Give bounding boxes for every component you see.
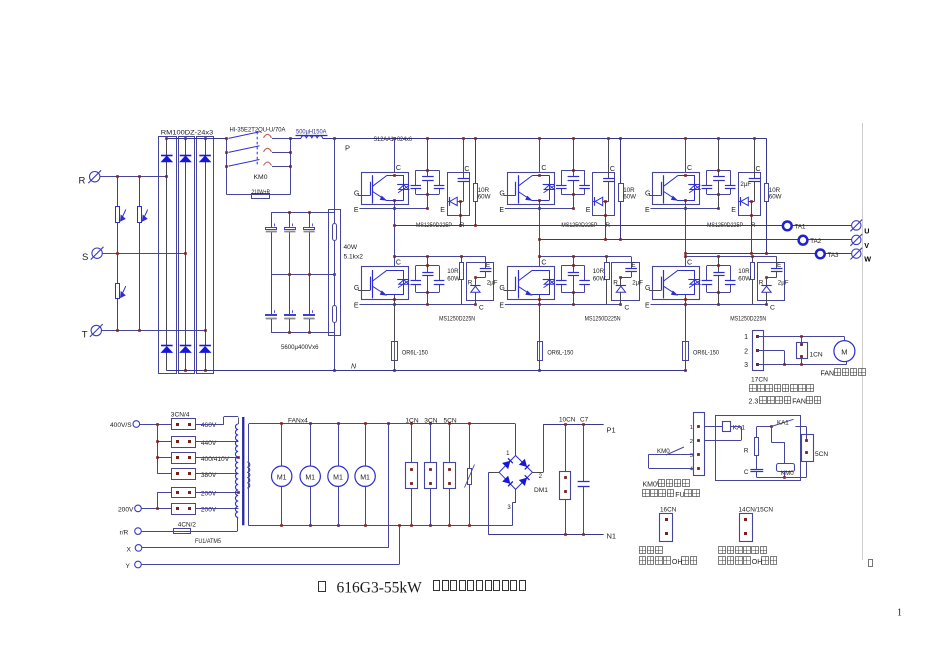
thermistor RT1 bbox=[465, 424, 475, 526]
svg-text:400V/S: 400V/S bbox=[110, 422, 132, 429]
wire emitter E line top leg@686 bbox=[651, 207, 720, 210]
resistor 10R 60W bottom leg@686 bbox=[738, 257, 754, 305]
svg-text:OH: OH bbox=[752, 559, 763, 566]
svg-text:C: C bbox=[744, 469, 749, 476]
rectifier module D2 bbox=[179, 137, 195, 374]
stray tofu box bbox=[869, 560, 873, 567]
resistor R snubber KM0 bbox=[744, 425, 773, 455]
svg-text:P1: P1 bbox=[607, 426, 616, 435]
fuse OR6L-150 leg@540 bbox=[538, 342, 574, 372]
terminal r/R bbox=[120, 528, 142, 537]
label open trips FU fault text bbox=[643, 490, 700, 499]
svg-text:E: E bbox=[440, 207, 445, 214]
svg-text:10R: 10R bbox=[593, 268, 605, 275]
svg-text:380V: 380V bbox=[201, 472, 217, 479]
resistor 10R 60W bottom leg@540 bbox=[593, 257, 610, 305]
svg-text:14CN/15CN: 14CN/15CN bbox=[739, 507, 774, 514]
wire leg mid vertical leg@394 bbox=[394, 225, 396, 267]
svg-text:3CN: 3CN bbox=[424, 417, 437, 424]
svg-text:M: M bbox=[841, 347, 847, 356]
svg-text:60W: 60W bbox=[769, 193, 782, 200]
capacitor snubber bank top leg@394 bbox=[411, 138, 445, 208]
svg-text:E: E bbox=[499, 303, 504, 310]
terminal T bbox=[82, 324, 103, 340]
svg-text:C: C bbox=[479, 305, 484, 312]
varistor RV2 (R-T) bbox=[138, 177, 148, 331]
wire emitter top leg@540 bbox=[538, 199, 541, 241]
svg-text:FANx4: FANx4 bbox=[288, 417, 308, 424]
capacitor snubber bank bottom leg@686 bbox=[702, 257, 736, 305]
resistor 210W+R (bypass) bbox=[252, 189, 271, 198]
svg-text:4CN/2: 4CN/2 bbox=[178, 521, 197, 528]
svg-text:V: V bbox=[864, 241, 869, 250]
wire 400V/S feed bbox=[140, 423, 172, 474]
wire N1 rail bbox=[489, 533, 604, 536]
svg-text:G: G bbox=[645, 190, 650, 197]
svg-text:C: C bbox=[464, 166, 469, 173]
motor M cooling fan bbox=[834, 341, 855, 362]
bleeder box outline bbox=[329, 210, 341, 336]
current sensor TA2 bbox=[799, 236, 822, 245]
connector 1CN (fan supply) bbox=[405, 417, 418, 525]
svg-text:DM1: DM1 bbox=[534, 487, 548, 494]
motor M1 fan @365 bbox=[355, 424, 375, 526]
svg-text:KA1: KA1 bbox=[733, 424, 746, 431]
label open trips OH fault text (left) bbox=[639, 557, 697, 567]
capacitor C3 (5600u top) bbox=[304, 212, 315, 274]
node P bbox=[345, 144, 350, 153]
wire tap 400/410V bbox=[196, 457, 239, 459]
capacitor C1b (5600u bottom) bbox=[266, 274, 277, 332]
label 5600u400Vx6 bbox=[281, 344, 319, 351]
svg-text:2µF: 2µF bbox=[632, 279, 643, 286]
wire collector feed bottom leg@394 bbox=[393, 255, 485, 258]
svg-text:M1: M1 bbox=[277, 474, 287, 481]
label open trips OH fault text (right) bbox=[719, 557, 777, 567]
svg-text:2: 2 bbox=[690, 439, 693, 445]
wire cap bank middle bus bbox=[271, 273, 336, 276]
svg-text:TA3: TA3 bbox=[828, 252, 839, 259]
svg-text:R: R bbox=[613, 279, 618, 286]
wire collector top leg@540 bbox=[538, 138, 541, 176]
wire 17CN pin3 to fan bbox=[757, 362, 846, 366]
resistor 10R 60W top leg@540 bbox=[619, 138, 637, 240]
wire S phase bbox=[102, 252, 186, 255]
resistor R bleed bottom 5.1k bbox=[333, 306, 337, 333]
svg-text:60W: 60W bbox=[623, 193, 636, 200]
connector tap box 3 (400/410V) bbox=[172, 453, 230, 464]
svg-text:r/R: r/R bbox=[120, 529, 129, 536]
terminal 400V/S bbox=[110, 421, 140, 429]
terminal U bbox=[850, 220, 869, 236]
wire emitter E line top leg@394 bbox=[359, 207, 428, 210]
page border line bbox=[862, 123, 864, 560]
wire cap bank bottom bus bbox=[271, 331, 334, 334]
svg-text:S: S bbox=[82, 252, 88, 263]
label HI-35E2T2QU-U/70A bbox=[230, 127, 287, 134]
svg-text:N1: N1 bbox=[607, 532, 617, 541]
node P1 bbox=[607, 426, 616, 435]
svg-text:60W: 60W bbox=[478, 193, 491, 200]
connector tap box 4 (380V) bbox=[172, 469, 217, 480]
svg-text:C: C bbox=[770, 305, 775, 312]
svg-text:2µF: 2µF bbox=[740, 181, 751, 188]
IGBT module bottom (MS1250D225N) leg@686 bbox=[645, 260, 700, 310]
connector 5CN (fan supply) bbox=[444, 417, 457, 525]
resistor 10R 60W top leg@686 bbox=[765, 138, 782, 254]
terminal W bbox=[850, 248, 871, 264]
svg-text:X: X bbox=[127, 546, 132, 553]
snubber diode network bottom leg@686 bbox=[758, 257, 789, 312]
connector tap box 5 (200V) bbox=[172, 488, 217, 498]
label MS1250D225P leg@394 bbox=[416, 222, 465, 229]
current sensor TA1 bbox=[783, 222, 806, 231]
wire 17CN pin1 to fan bbox=[757, 335, 844, 340]
label 2uF leg3 top bbox=[740, 181, 751, 188]
contact KM0 aux bbox=[649, 447, 694, 469]
snubber diode network top leg@540 bbox=[586, 138, 615, 240]
svg-text:R: R bbox=[468, 279, 473, 286]
snubber diode network top leg@394 bbox=[440, 138, 469, 226]
label FANx4 bbox=[288, 417, 308, 424]
varistor RV3 (S-T) bbox=[116, 253, 126, 330]
svg-text:17CN: 17CN bbox=[751, 376, 768, 383]
svg-text:G: G bbox=[499, 190, 504, 197]
wire leg mid vertical leg@686 bbox=[685, 254, 687, 267]
wire emitter top leg@686 bbox=[684, 199, 687, 255]
svg-text:210W+R: 210W+R bbox=[252, 189, 271, 196]
svg-text:2µF: 2µF bbox=[487, 279, 498, 286]
svg-text:C: C bbox=[624, 305, 629, 312]
svg-text:200V: 200V bbox=[201, 490, 217, 497]
label fan fault detect terminal text bbox=[750, 385, 814, 392]
svg-text:440V: 440V bbox=[201, 440, 217, 447]
svg-text:40W: 40W bbox=[344, 244, 358, 251]
title text 616G3-55kW bbox=[337, 579, 423, 596]
svg-text:E: E bbox=[631, 262, 635, 269]
rectifier module D1 bbox=[159, 137, 177, 374]
motor M1 fan @282 bbox=[272, 424, 292, 526]
wire cap bank to N bus bbox=[333, 333, 336, 372]
terminal 200V bbox=[118, 505, 141, 513]
svg-text:OR6L-150: OR6L-150 bbox=[693, 350, 719, 357]
svg-text:P: P bbox=[345, 144, 350, 153]
svg-text:MS1250D225N: MS1250D225N bbox=[585, 315, 621, 322]
wire V output bbox=[540, 239, 852, 241]
contact KA1 bbox=[771, 419, 806, 440]
svg-text:M1: M1 bbox=[333, 474, 343, 481]
connector tap box 6 (200V) bbox=[172, 504, 217, 515]
wire tap 200V bbox=[196, 492, 239, 494]
svg-text:200V: 200V bbox=[201, 507, 217, 514]
svg-text:E: E bbox=[586, 207, 591, 214]
wire tap 380V bbox=[196, 473, 239, 475]
svg-text:G: G bbox=[499, 285, 504, 292]
varistor RV1 (R-S) bbox=[116, 177, 126, 254]
svg-text:400/410V: 400/410V bbox=[201, 456, 230, 463]
svg-text:1CN: 1CN bbox=[405, 417, 418, 424]
wire collector top leg@394 bbox=[393, 138, 396, 176]
svg-text:KM0: KM0 bbox=[781, 470, 794, 477]
terminal V bbox=[850, 234, 869, 250]
terminal R bbox=[79, 170, 102, 186]
svg-text:KM0\: KM0\ bbox=[643, 482, 659, 489]
wire bridge AC bottom bbox=[512, 489, 515, 525]
svg-text:MS1250D225N: MS1250D225N bbox=[439, 315, 475, 322]
label 3CN/4 bbox=[171, 411, 190, 418]
wire Y line bbox=[141, 526, 399, 565]
wire tap 460V bbox=[196, 417, 238, 425]
svg-text:Y: Y bbox=[126, 563, 131, 570]
connector 5CN bbox=[802, 435, 829, 462]
wire leg mid vertical leg@540 bbox=[539, 240, 541, 267]
label RM100DZ-24x3 bbox=[161, 129, 214, 136]
page number bbox=[897, 608, 902, 619]
svg-text:E: E bbox=[354, 303, 359, 310]
label shorted text bbox=[639, 547, 662, 554]
svg-text:R: R bbox=[744, 448, 749, 455]
wire W output bbox=[686, 253, 853, 255]
svg-text:2.3: 2.3 bbox=[749, 399, 759, 406]
snubber diode network top leg@686 bbox=[731, 138, 760, 254]
svg-text:M1: M1 bbox=[305, 474, 315, 481]
wire P bus from rectifier to contactor bbox=[167, 138, 227, 140]
capacitor C1 (5600u top) bbox=[266, 212, 277, 274]
svg-text:W: W bbox=[864, 255, 871, 264]
label external thermal sensor text bbox=[719, 547, 767, 554]
svg-text:500µH150A: 500µH150A bbox=[296, 128, 327, 135]
wire fan box top bus bbox=[249, 422, 516, 526]
motor M1 fan @310 bbox=[300, 424, 320, 526]
svg-text:10R: 10R bbox=[738, 268, 750, 275]
wire KM0 block bottom rail bbox=[757, 462, 807, 478]
resistor R bleed top 5.1k bbox=[333, 138, 337, 305]
svg-text:U: U bbox=[864, 226, 869, 235]
svg-text:2µF: 2µF bbox=[778, 279, 789, 286]
resistor 10R 60W bottom leg@394 bbox=[447, 257, 463, 305]
connector tap box 1 (460V) bbox=[172, 419, 217, 430]
wire U output bbox=[394, 225, 852, 227]
current sensor TA3 bbox=[816, 250, 839, 260]
node N1 bbox=[607, 532, 617, 541]
svg-text:TA1: TA1 bbox=[795, 223, 806, 230]
wire T phase bbox=[101, 329, 205, 332]
svg-text:2: 2 bbox=[744, 349, 748, 356]
wire bridge minus to N1 bbox=[489, 472, 500, 534]
capacitor snubber bank bottom leg@540 bbox=[556, 257, 590, 305]
svg-text:C: C bbox=[756, 166, 761, 173]
resistor 10R 60W top leg@394 bbox=[474, 138, 491, 226]
svg-text:E: E bbox=[645, 303, 650, 310]
svg-text:10CN: 10CN bbox=[559, 417, 576, 424]
svg-text:C: C bbox=[541, 165, 546, 172]
label MS1250D225N leg@540 bbox=[585, 315, 621, 322]
svg-text:5.1kx2: 5.1kx2 bbox=[344, 254, 364, 261]
svg-text:C: C bbox=[687, 260, 692, 267]
svg-text:C: C bbox=[396, 165, 401, 172]
svg-text:E: E bbox=[645, 207, 650, 214]
svg-text:3: 3 bbox=[744, 362, 748, 369]
title tofu box bbox=[319, 582, 326, 592]
wire emitter E line top leg@540 bbox=[505, 207, 575, 210]
svg-text:G: G bbox=[354, 190, 359, 197]
svg-text:OR6L-150: OR6L-150 bbox=[402, 350, 428, 357]
label FAN cooling fan text bbox=[821, 369, 866, 378]
capacitor C2b (5600u bottom) bbox=[284, 274, 295, 332]
label KM0 status detect text bbox=[643, 480, 690, 489]
IGBT module bottom (MS1250D225N) leg@394 bbox=[354, 260, 409, 310]
svg-text:1: 1 bbox=[744, 334, 748, 341]
svg-text:S12AA1+024x6: S12AA1+024x6 bbox=[374, 136, 413, 143]
fuse OR6L-150 leg@686 bbox=[683, 342, 720, 372]
connector 17CN bbox=[744, 331, 768, 384]
svg-text:E: E bbox=[354, 207, 359, 214]
wire bridge AC top bbox=[515, 424, 517, 456]
svg-text:3: 3 bbox=[690, 453, 693, 459]
capacitor C snubber KM0 bbox=[744, 456, 763, 478]
bridge rectifier DM1 bbox=[499, 451, 548, 511]
label 2,3 open trips FAN fault text bbox=[749, 397, 821, 406]
box KM0 logic bbox=[716, 416, 801, 481]
svg-text:C: C bbox=[396, 260, 401, 267]
connector 16CN bbox=[660, 507, 677, 542]
capacitor C7 bbox=[578, 417, 590, 535]
wire emitter E line bottom leg@540 bbox=[505, 295, 622, 342]
svg-text:C: C bbox=[541, 260, 546, 267]
wire 200V feed bbox=[141, 492, 171, 509]
wire 17CN pin2 bbox=[757, 351, 784, 365]
capacitor snubber bank top leg@686 bbox=[702, 138, 736, 208]
svg-text:OH: OH bbox=[672, 559, 683, 566]
wire cap bank top bus bbox=[271, 211, 334, 214]
svg-text:C7: C7 bbox=[580, 417, 589, 424]
wire bridge plus to P1 rail bbox=[532, 423, 603, 472]
svg-text:5CN: 5CN bbox=[815, 451, 828, 458]
contactor KM0 contacts bbox=[225, 132, 292, 195]
svg-text:G: G bbox=[645, 285, 650, 292]
svg-text:T: T bbox=[82, 329, 88, 340]
transformer T1 bbox=[235, 417, 249, 525]
terminal S bbox=[82, 247, 104, 263]
svg-text:60W: 60W bbox=[447, 275, 460, 282]
wire collector feed bottom leg@540 bbox=[538, 255, 631, 258]
svg-text:C: C bbox=[687, 165, 692, 172]
svg-text:KM0: KM0 bbox=[657, 448, 670, 455]
svg-text:C: C bbox=[610, 166, 615, 173]
svg-text:RM100DZ-24x3: RM100DZ-24x3 bbox=[161, 129, 214, 136]
svg-text:1CN: 1CN bbox=[810, 351, 823, 358]
connector 1CN (fan) bbox=[797, 337, 823, 365]
wire tap 440V bbox=[196, 441, 239, 443]
coil KM0 contactor bbox=[771, 427, 794, 479]
fuse FU1/ATM5 (4CN/2) bbox=[141, 518, 237, 546]
svg-text:MS1250D225N: MS1250D225N bbox=[730, 315, 766, 322]
snubber diode network bottom leg@540 bbox=[612, 257, 644, 312]
connector 3CN (fan supply) bbox=[424, 417, 437, 525]
svg-text:1: 1 bbox=[897, 608, 902, 619]
svg-text:KA1: KA1 bbox=[777, 419, 789, 426]
label 40W 5.1kx2 bbox=[344, 244, 364, 261]
svg-text:E: E bbox=[499, 207, 504, 214]
IGBT module top (MS1250D225P) leg@686 bbox=[645, 165, 700, 214]
connector 4pin KM0 sense bbox=[690, 413, 705, 476]
svg-text:R: R bbox=[79, 176, 86, 187]
title tofu boxes row bbox=[434, 581, 526, 591]
IGBT module top (MS1250D225P) leg@540 bbox=[499, 165, 554, 214]
wire collector feed bottom leg@686 bbox=[684, 255, 777, 258]
connector tap box 2 (440V) bbox=[172, 437, 217, 448]
wire emitter top leg@394 bbox=[393, 199, 396, 227]
svg-text:FU1/ATM5: FU1/ATM5 bbox=[195, 538, 221, 545]
svg-text:60W: 60W bbox=[738, 275, 751, 282]
connector 10CN bbox=[559, 417, 576, 535]
svg-text:KM0: KM0 bbox=[254, 174, 268, 181]
capacitor snubber bank bottom leg@394 bbox=[411, 257, 445, 305]
rectifier module D3 bbox=[197, 137, 214, 374]
svg-text:1: 1 bbox=[690, 425, 693, 431]
svg-text:M1: M1 bbox=[360, 474, 370, 481]
fuse OR6L-150 leg@394 bbox=[392, 342, 429, 372]
svg-text:E: E bbox=[731, 207, 736, 214]
svg-text:5600µ400Vx6: 5600µ400Vx6 bbox=[281, 344, 319, 351]
svg-text:616G3-55kW: 616G3-55kW bbox=[337, 579, 423, 596]
svg-text:460V: 460V bbox=[201, 422, 217, 429]
capacitor C2 (5600u top) bbox=[284, 212, 295, 274]
svg-text:G: G bbox=[354, 285, 359, 292]
svg-text:16CN: 16CN bbox=[660, 507, 677, 514]
motor M1 fan @338 bbox=[328, 424, 348, 526]
svg-text:E: E bbox=[777, 262, 781, 269]
svg-text:60W: 60W bbox=[593, 275, 606, 282]
relay coil KA1 bbox=[704, 422, 745, 441]
svg-text:200V: 200V bbox=[118, 507, 134, 514]
svg-text:FU: FU bbox=[675, 492, 684, 499]
label MS1250D225P leg@686 bbox=[707, 222, 756, 229]
capacitor C3b (5600u bottom) bbox=[304, 274, 315, 332]
svg-text:OR6L-150: OR6L-150 bbox=[547, 350, 573, 357]
wire tap 200V bbox=[196, 508, 239, 510]
svg-text:10R: 10R bbox=[447, 268, 459, 275]
svg-text:5CN: 5CN bbox=[444, 417, 457, 424]
inductor L1 500uH150A bbox=[290, 128, 327, 138]
wire N bus bbox=[167, 364, 686, 372]
wire P bus inductor to legs bbox=[323, 137, 767, 140]
terminal X bbox=[127, 545, 142, 554]
svg-text:FAN: FAN bbox=[821, 371, 835, 378]
label MS1250D225P leg@540 bbox=[561, 222, 610, 229]
svg-text:E: E bbox=[486, 262, 490, 269]
connector 14CN/15CN bbox=[739, 507, 774, 542]
svg-text:R: R bbox=[759, 279, 764, 286]
svg-text:TA2: TA2 bbox=[810, 238, 821, 245]
capacitor snubber bank top leg@540 bbox=[556, 138, 590, 208]
wire R phase bbox=[100, 175, 167, 178]
IGBT module top (MS1250D225P) leg@394 bbox=[354, 165, 409, 214]
svg-text:3CN/4: 3CN/4 bbox=[171, 411, 190, 418]
snubber diode network bottom leg@394 bbox=[467, 257, 498, 312]
wire fan box bottom bus bbox=[249, 524, 512, 527]
svg-text:FAN: FAN bbox=[792, 399, 806, 406]
wire X line bbox=[142, 424, 389, 548]
wire emitter E line bottom leg@394 bbox=[359, 295, 476, 342]
wire emitter E line bottom leg@686 bbox=[651, 295, 768, 342]
label S12AA1+024x6 bbox=[374, 136, 413, 143]
IGBT module bottom (MS1250D225N) leg@540 bbox=[499, 260, 554, 310]
terminal Y bbox=[126, 561, 142, 570]
wire collector top leg@686 bbox=[684, 138, 687, 176]
label MS1250D225N leg@686 bbox=[730, 315, 766, 322]
label MS1250D225N leg@394 bbox=[439, 315, 475, 322]
